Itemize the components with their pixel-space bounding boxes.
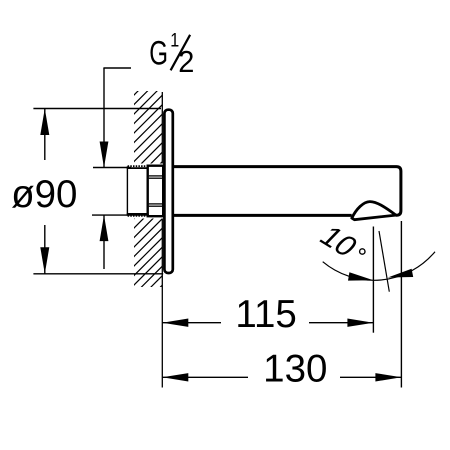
svg-text:130: 130 (263, 348, 327, 391)
dimension: 115 (162, 227, 373, 333)
svg-text:ø90: ø90 (11, 173, 77, 216)
hex nut (148, 166, 164, 217)
nut facet lines (149, 176, 163, 206)
wall hatching (100, 0, 220, 405)
flange (escutcheon, side view) (164, 110, 172, 273)
dimension: ø90 (33, 109, 163, 274)
thread zigzag bottom (127, 213, 147, 215)
svg-text:115: 115 (235, 293, 296, 336)
spout outlet beak (352, 202, 396, 220)
white mask behind fitting (126, 164, 164, 219)
threaded tail: left edge (126, 166, 128, 215)
angle dimension: 10 deg (379, 231, 389, 292)
ext line bottom (33, 273, 163, 275)
spout tube top + right end (174, 167, 401, 216)
spout tube bottom edge (174, 214, 352, 217)
dimension: G 1/2 (92, 68, 149, 269)
dimension: 130 (162, 221, 401, 388)
dim line segments (44, 109, 46, 161)
wall face line (161, 92, 163, 388)
ext line top (33, 108, 161, 110)
svg-text:G: G (149, 34, 168, 72)
thread zigzag top (127, 167, 147, 169)
